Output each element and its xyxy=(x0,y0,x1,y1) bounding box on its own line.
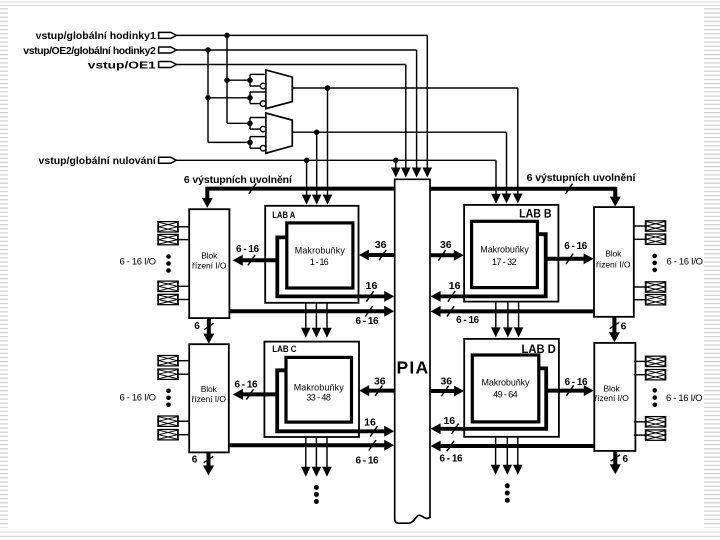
svg-text:vstup/globální nulování: vstup/globální nulování xyxy=(39,155,157,167)
I/O cell A4 xyxy=(158,294,178,304)
wire 6-16 I/O block A to PIA xyxy=(229,309,385,313)
svg-text:6 - 16 I/O: 6 - 16 I/O xyxy=(666,393,703,404)
wire OE1 horizontal xyxy=(176,64,405,66)
inverter bubble mux1 input1 xyxy=(260,83,266,89)
wire hodinky2 vertical to PIA xyxy=(416,50,418,169)
node mux2 input1 xyxy=(247,121,253,127)
wire mux2 output xyxy=(292,131,506,133)
node nulovani to LAB A xyxy=(304,158,310,164)
ellipsis I/O cells D xyxy=(653,388,658,393)
wire macrocell A feedback wrap / 16 bus to PIA xyxy=(277,237,385,296)
svg-text:LAB C: LAB C xyxy=(272,344,296,355)
wire 6 bus below I/O block D xyxy=(613,451,617,465)
wire mux1 output drop to LAB A xyxy=(327,88,329,195)
wire 36 bus PIA to LAB D xyxy=(430,389,455,393)
node hodinky2 / mux feed xyxy=(205,47,211,53)
svg-text:řízení I/O: řízení I/O xyxy=(192,261,227,271)
wire branch to mux1 input1 xyxy=(227,79,250,81)
svg-text:Blok: Blok xyxy=(201,250,218,260)
I/O cell C4 xyxy=(158,430,178,440)
wire mux1 output drop to LAB B xyxy=(517,88,519,194)
svg-text:1 - 16: 1 - 16 xyxy=(310,257,329,267)
mux U2 (OE select) xyxy=(266,113,293,153)
ellipsis I/O cells C xyxy=(166,389,171,394)
inverter bubble mux1 input2 xyxy=(260,101,266,107)
wire 6-16 LAB B to I/O block xyxy=(546,257,585,261)
wire 6-16 I/O block C to PIA xyxy=(229,443,385,447)
wires below LAB D xyxy=(495,437,497,466)
wire I/O cell B1 to block xyxy=(634,225,646,227)
wire I/O cell A3 to block xyxy=(178,285,189,287)
svg-text:LAB B: LAB B xyxy=(519,207,552,221)
input pin vstup/globalni hodinky1 xyxy=(159,32,177,38)
wire nulovani horizontal xyxy=(176,159,496,161)
wire hodinky1 drop to muxes xyxy=(226,35,228,123)
svg-text:Makrobuňky: Makrobuňky xyxy=(480,245,529,255)
input pin vstup/OE1 xyxy=(159,62,177,68)
wire I/O cell B2 to block xyxy=(634,238,646,240)
svg-text:49 - 64: 49 - 64 xyxy=(493,389,518,399)
macrocell block 17-32 xyxy=(472,221,538,287)
svg-text:řízení I/O: řízení I/O xyxy=(594,393,629,403)
svg-text:16: 16 xyxy=(449,280,461,292)
node mux1 input1 branch xyxy=(224,77,230,83)
svg-text:6 - 16 I/O: 6 - 16 I/O xyxy=(120,393,157,404)
wire 6 bus between I/O blocks A-C xyxy=(207,318,211,334)
svg-text:6 - 16: 6 - 16 xyxy=(356,316,379,327)
ellipsis below LAB C xyxy=(314,485,319,490)
node mux1 input2 xyxy=(247,95,253,101)
wire 6-16 I/O block B to PIA xyxy=(440,309,595,313)
svg-text:Makrobuňky: Makrobuňky xyxy=(482,377,531,387)
wire 36 bus PIA to LAB C xyxy=(368,389,394,393)
svg-text:6 - 16: 6 - 16 xyxy=(235,379,258,390)
wire nulovani vertical to LAB A xyxy=(306,160,308,195)
I/O cell C2 xyxy=(158,369,178,379)
svg-text:6: 6 xyxy=(623,454,629,465)
svg-text:16: 16 xyxy=(364,417,376,429)
wire 6-16 I/O block D to PIA xyxy=(440,444,595,448)
macrocell block 1-16 xyxy=(287,223,353,288)
inverter bubble mux2 input1 xyxy=(260,126,266,132)
svg-text:16: 16 xyxy=(366,280,378,292)
wire I/O cell D3 to block xyxy=(634,421,646,423)
wire hodinky2 horizontal xyxy=(176,49,416,51)
LAB C box xyxy=(264,342,359,437)
wire to mux2 input1 xyxy=(227,122,250,124)
svg-text:vstup/OE2/globální hodinky2: vstup/OE2/globální hodinky2 xyxy=(23,45,156,57)
svg-text:LAB A: LAB A xyxy=(272,210,295,220)
svg-text:6 výstupních uvolnění: 6 výstupních uvolnění xyxy=(527,172,637,184)
svg-text:36: 36 xyxy=(374,375,386,387)
mux U1 (clock select) xyxy=(266,70,293,109)
node hodinky1 / mux feed xyxy=(224,33,230,39)
svg-text:vstup/globální hodinky1: vstup/globální hodinky1 xyxy=(36,30,156,42)
node mux1 input1 xyxy=(247,77,253,83)
svg-text:řízení I/O: řízení I/O xyxy=(192,394,227,404)
wire I/O cell C2 to block xyxy=(178,373,189,375)
svg-text:36: 36 xyxy=(440,375,452,387)
input pin vstup/OE2/globalni hodinky2 xyxy=(159,47,177,53)
wire branch to mux1 input2 xyxy=(208,97,250,99)
svg-text:vstup/OE1: vstup/OE1 xyxy=(88,59,156,71)
I/O cell D1 xyxy=(645,356,665,366)
macrocell block 49-64 xyxy=(472,355,539,422)
svg-text:Blok: Blok xyxy=(605,249,622,259)
wire I/O cell B3 to block xyxy=(634,286,646,288)
wire macrocell C feedback wrap / 16 bus to PIA xyxy=(277,370,385,431)
wire macrocell B feedback wrap / 16 bus to PIA xyxy=(440,234,546,296)
ellipsis I/O cells A xyxy=(166,254,171,259)
svg-text:6: 6 xyxy=(621,321,627,332)
wire nulovani vertical to PIA xyxy=(395,160,397,168)
wire mux2 output drop to LAB A xyxy=(316,132,318,195)
wire I/O cell C3 to block xyxy=(178,420,189,422)
I/O cell D3 xyxy=(645,417,665,427)
LAB B box xyxy=(464,205,558,302)
I/O cell B3 xyxy=(645,282,665,292)
wire mux2 input1 true/complement stub xyxy=(249,118,251,130)
wire I/O cell A4 to block xyxy=(178,299,189,301)
I/O cell D4 xyxy=(645,430,665,440)
I/O cell A3 xyxy=(158,281,178,291)
wire mux1 input2 true/complement stub xyxy=(249,92,251,104)
node mux1 input2 branch xyxy=(205,95,211,101)
ellipsis below LAB D xyxy=(505,483,510,488)
PIA column xyxy=(395,179,430,523)
svg-text:6: 6 xyxy=(194,321,200,332)
I/O cell A1 xyxy=(158,222,178,232)
LAB A box xyxy=(265,206,358,303)
svg-text:6 - 16 I/O: 6 - 16 I/O xyxy=(120,256,157,267)
wire hodinky1 horizontal xyxy=(176,34,427,36)
wire 6 bus below I/O block C xyxy=(207,452,211,465)
svg-text:6 výstupních uvolnění: 6 výstupních uvolnění xyxy=(184,174,293,186)
wire nulovani vertical to LAB B xyxy=(495,160,497,194)
svg-text:řízení I/O: řízení I/O xyxy=(596,260,631,270)
wire hodinky2 drop to muxes xyxy=(207,50,209,142)
svg-text:36: 36 xyxy=(440,239,452,251)
macrocell block 33-48 xyxy=(286,357,352,422)
node mux2 output to LAB A xyxy=(314,129,320,135)
I/O cell A2 xyxy=(158,234,178,244)
bus 6 vystupnich uvolneni right xyxy=(430,189,615,198)
svg-text:Blok: Blok xyxy=(201,384,218,394)
wire hodinky1 vertical to PIA xyxy=(426,35,428,168)
svg-text:17 - 32: 17 - 32 xyxy=(492,257,517,267)
wire I/O cell C1 to block xyxy=(178,360,189,362)
svg-text:6 - 16: 6 - 16 xyxy=(440,454,463,465)
svg-text:6 - 16: 6 - 16 xyxy=(564,241,587,252)
wire I/O cell B4 to block xyxy=(634,299,646,301)
wire I/O cell A1 to block xyxy=(178,226,189,228)
wires LAB B to LAB D xyxy=(495,302,497,328)
svg-text:6 - 16 I/O: 6 - 16 I/O xyxy=(667,257,704,268)
wire I/O cell C4 to block xyxy=(178,434,189,436)
node mux1 output to LAB A xyxy=(325,85,331,91)
svg-text:6 - 16: 6 - 16 xyxy=(565,377,588,388)
wire macrocell D feedback wrap / 16 bus to PIA xyxy=(440,368,547,428)
wire I/O cell D2 to block xyxy=(634,374,646,376)
wire I/O cell A2 to block xyxy=(178,239,189,241)
svg-text:6 - 16: 6 - 16 xyxy=(236,244,259,255)
svg-text:33 - 48: 33 - 48 xyxy=(306,393,331,403)
I/O cell B1 xyxy=(645,221,665,231)
wire mux1 input1 true/complement stub xyxy=(249,74,251,86)
LAB D box xyxy=(464,339,559,437)
wire I/O cell D4 to block xyxy=(634,434,646,436)
I/O control block A (Blok rizeni I/O) xyxy=(189,209,229,318)
svg-text:16: 16 xyxy=(443,415,455,427)
wire 6-16 LAB A to I/O block xyxy=(242,258,277,262)
wire 6-16 LAB D to I/O block xyxy=(546,389,584,393)
I/O cell D2 xyxy=(645,370,665,380)
I/O cell B2 xyxy=(645,234,665,244)
wire OE1 vertical to PIA xyxy=(405,65,407,169)
I/O control block B xyxy=(594,207,634,317)
I/O cell C1 xyxy=(158,356,178,366)
I/O control block C xyxy=(189,344,229,452)
svg-text:6: 6 xyxy=(192,455,198,466)
inverter bubble mux2 input2 xyxy=(260,145,266,151)
svg-text:6 - 16: 6 - 16 xyxy=(356,455,379,466)
I/O cell C3 xyxy=(158,416,178,426)
svg-text:6 - 16: 6 - 16 xyxy=(456,315,479,326)
input pin vstup/globalni nulovani xyxy=(159,157,177,163)
svg-text:PIA: PIA xyxy=(397,358,429,378)
svg-text:36: 36 xyxy=(375,239,387,251)
node nulovani to PIA xyxy=(393,158,399,164)
wire mux1 output xyxy=(292,87,518,89)
wire I/O cell D1 to block xyxy=(634,360,646,362)
wires below LAB C xyxy=(305,437,307,467)
wire 6-16 LAB C to I/O block xyxy=(242,392,277,396)
wire mux2 input2 true/complement stub xyxy=(249,137,251,149)
wires LAB A to LAB C xyxy=(305,303,307,329)
ellipsis I/O cells B xyxy=(652,254,657,259)
svg-text:Makrobuňky: Makrobuňky xyxy=(294,382,345,392)
node mux2 input2 xyxy=(247,140,253,146)
bus 6 vystupnich uvolneni left xyxy=(207,189,394,199)
svg-text:Makrobuňky: Makrobuňky xyxy=(295,245,346,255)
I/O control block D xyxy=(594,343,635,451)
wire mux2 output drop to LAB B xyxy=(506,132,508,194)
wire to mux2 input2 xyxy=(208,141,250,143)
wire 36 bus PIA to LAB B xyxy=(430,253,455,257)
wire 6 bus between I/O blocks B-D xyxy=(612,317,616,333)
I/O cell B4 xyxy=(645,295,665,305)
wire 36 bus PIA to LAB A xyxy=(368,253,395,257)
